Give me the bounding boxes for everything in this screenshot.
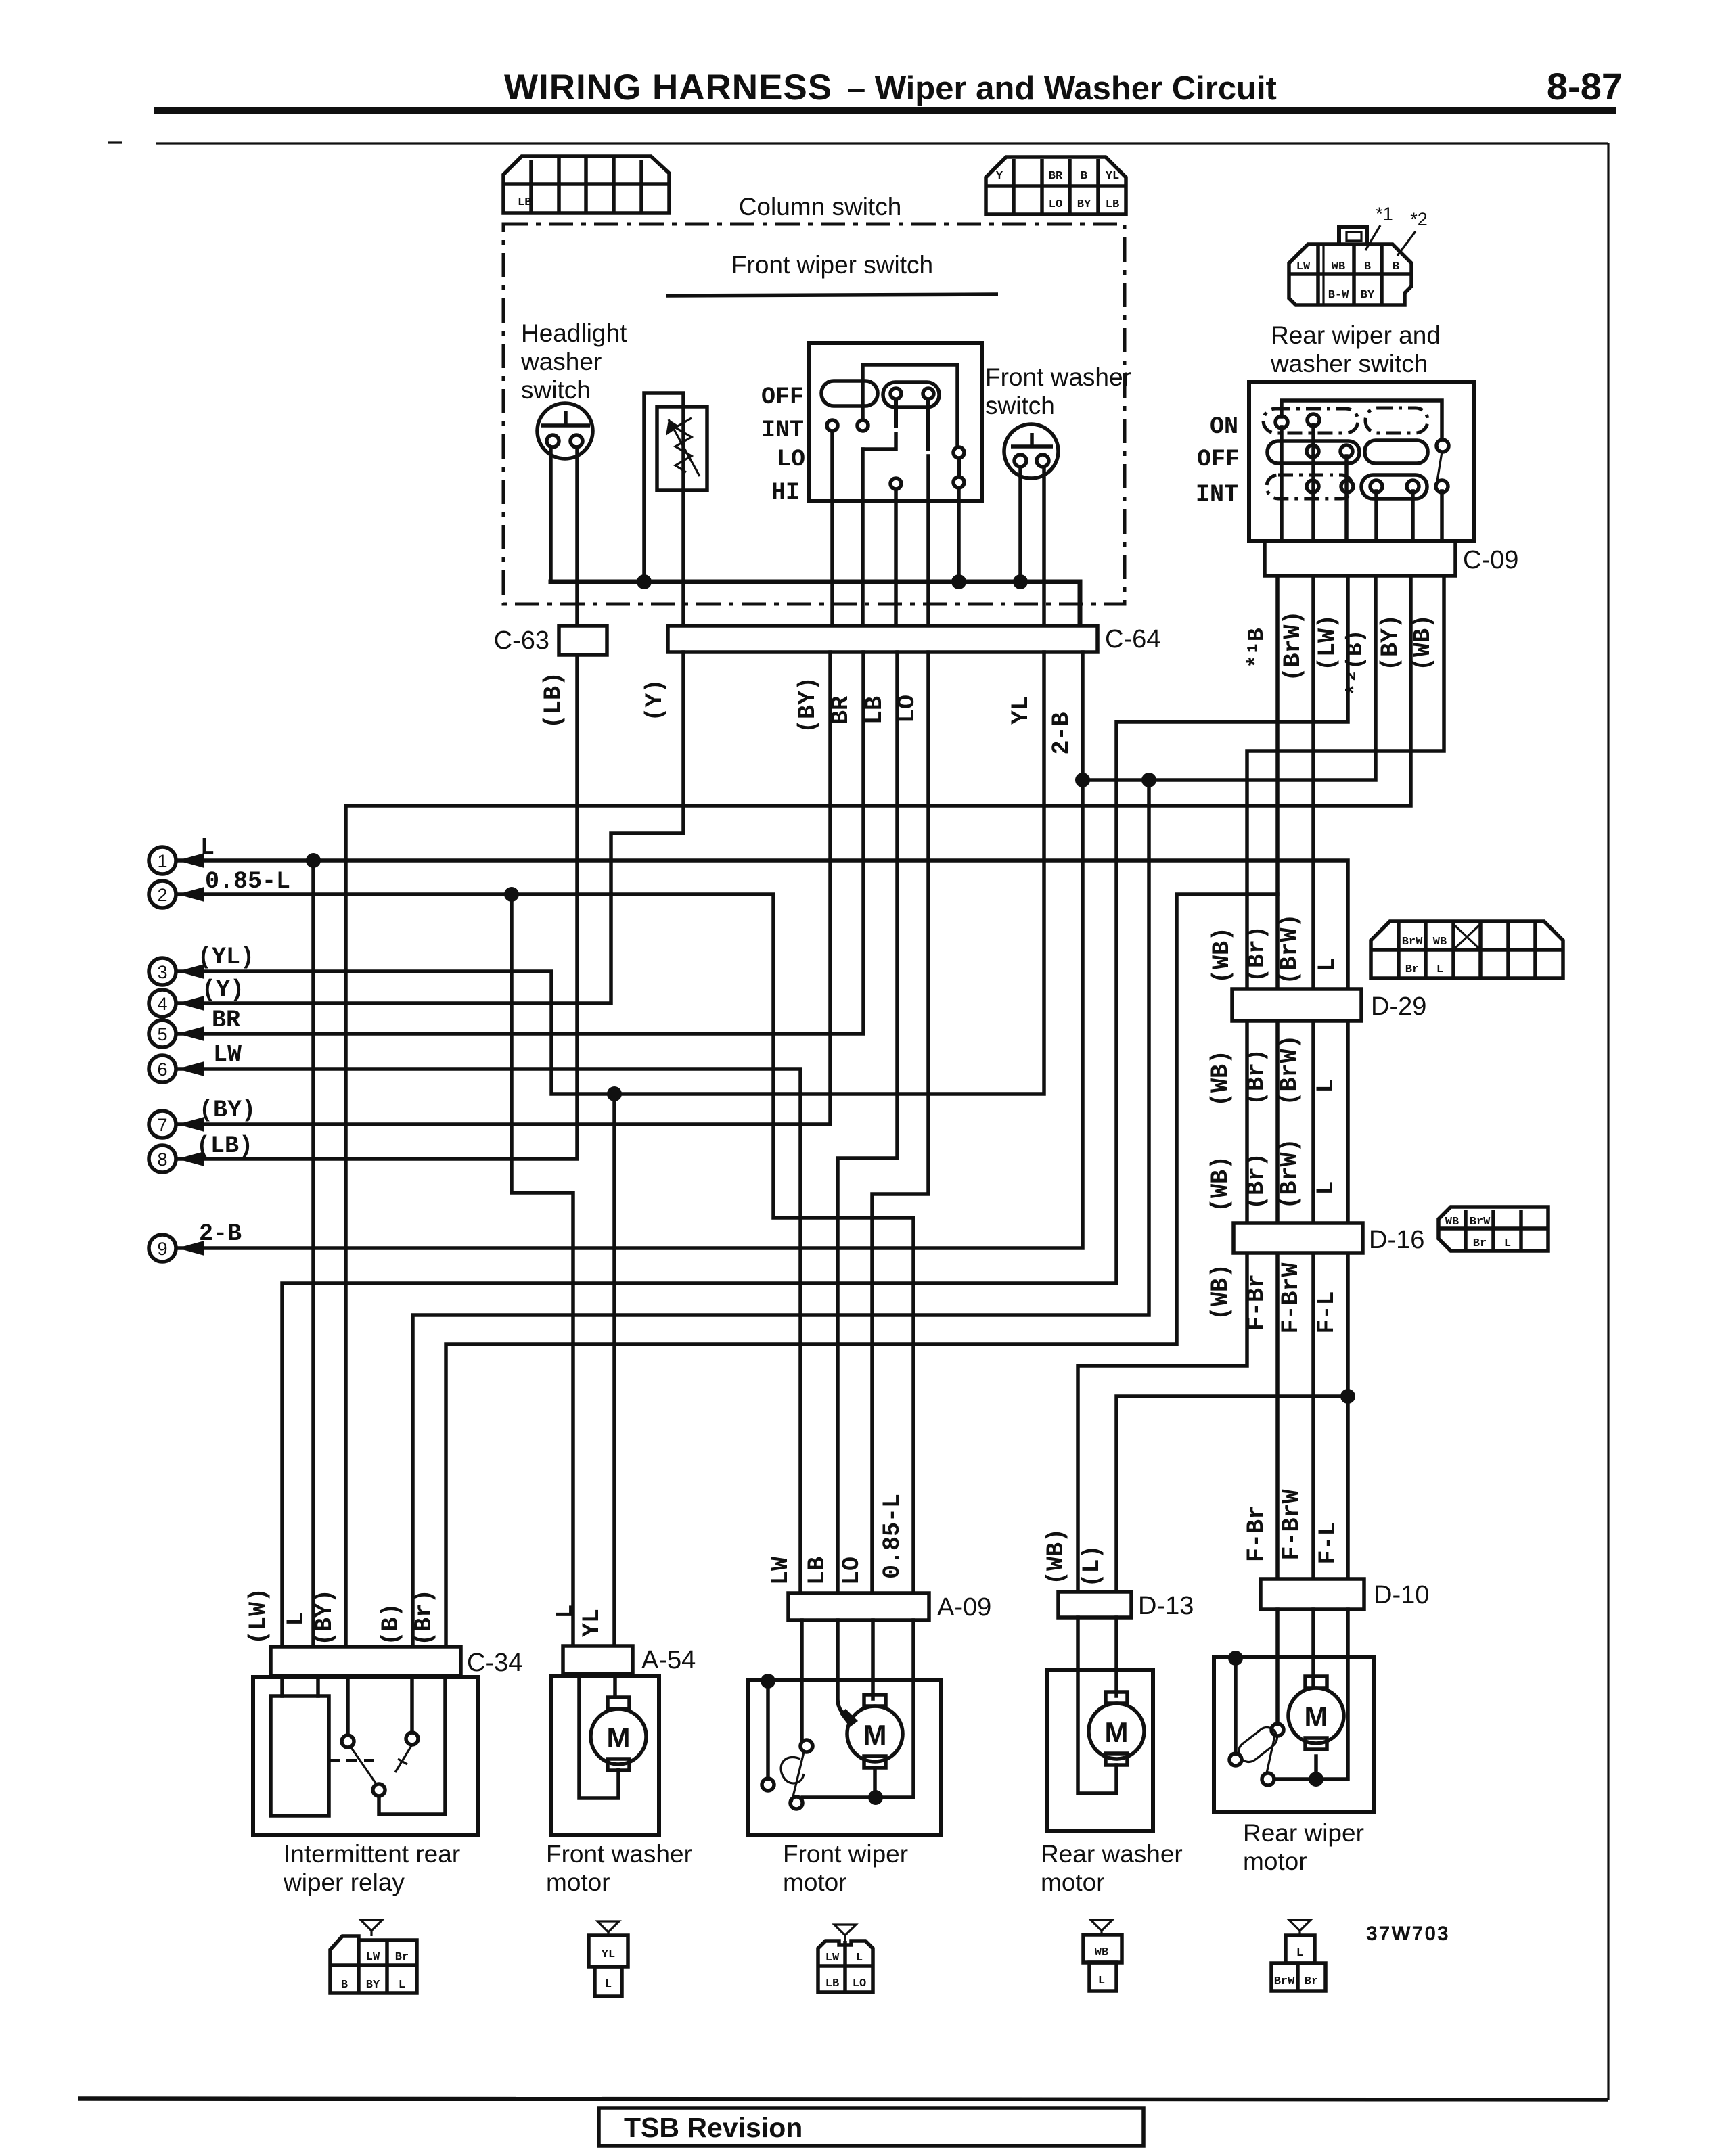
- terminal circle 8: [149, 1145, 176, 1172]
- svg-text:LO: LO: [838, 1557, 865, 1585]
- svg-text:(LB): (LB): [540, 672, 567, 729]
- park switch feed: [766, 1681, 770, 1779]
- wire LO jog to A-09: [872, 652, 928, 1593]
- svg-text:motor: motor: [546, 1868, 610, 1896]
- svg-text:2: 2: [157, 885, 167, 905]
- svg-text:wiper relay: wiper relay: [283, 1868, 405, 1896]
- wire: INT pin to C-64: [830, 431, 834, 626]
- svg-text:C-34: C-34: [467, 1649, 522, 1677]
- terminal circle 5: [149, 1020, 176, 1047]
- arrowhead 3: [177, 964, 204, 979]
- junction YL/A-54 branch: [607, 1086, 622, 1101]
- svg-text:7: 7: [157, 1115, 167, 1135]
- front washer switch: [1004, 424, 1058, 478]
- connector grid D-16 pins (WB BrW / Br L): [1439, 1207, 1548, 1251]
- park blade: [792, 1752, 804, 1802]
- svg-text:F-Br: F-Br: [1243, 1505, 1270, 1562]
- svg-text:M: M: [1105, 1716, 1129, 1748]
- svg-text:0.85-L: 0.85-L: [205, 868, 290, 895]
- svg-text:– Wiper and Washer Circuit: – Wiper and Washer Circuit: [847, 70, 1277, 107]
- wire bridge B to relay branch: [446, 894, 1277, 1647]
- svg-text:switch: switch: [521, 376, 591, 404]
- svg-text:LB: LB: [518, 196, 531, 209]
- column switch boundary (dash-dot box): [503, 224, 1125, 604]
- svg-text:B: B: [341, 1979, 348, 1992]
- svg-text:(WB): (WB): [1207, 1155, 1234, 1212]
- svg-text:F-BrW: F-BrW: [1278, 1489, 1305, 1560]
- svg-text:washer: washer: [520, 348, 602, 375]
- junction: bus/wiper common: [951, 574, 966, 589]
- svg-text:Intermittent rear: Intermittent rear: [284, 1840, 460, 1868]
- svg-text:C-64: C-64: [1105, 625, 1160, 653]
- relay coil: [271, 1696, 329, 1816]
- wire 8 (LB): [177, 655, 577, 1159]
- connector A-09: [788, 1593, 929, 1620]
- svg-text:LB: LB: [825, 1977, 839, 1990]
- arrowhead 6: [177, 1061, 204, 1076]
- svg-text:LO: LO: [894, 695, 921, 723]
- wire (B) branch to C-34: [413, 780, 1149, 1647]
- arrowhead 8: [177, 1151, 204, 1166]
- svg-text:(WB): (WB): [1207, 1050, 1234, 1107]
- wire 1 (L): [177, 861, 1348, 1579]
- svg-text:(BY): (BY): [1377, 614, 1404, 671]
- svg-text:YL: YL: [579, 1609, 606, 1637]
- terminal circle 7: [149, 1111, 176, 1138]
- svg-text:motor: motor: [1243, 1848, 1307, 1875]
- svg-text:D-13: D-13: [1138, 1592, 1194, 1620]
- frame right edge: [1607, 143, 1609, 2100]
- svg-text:(LW): (LW): [1314, 614, 1341, 671]
- connector grid D-29 pins (BrW WB X / Br L): [1371, 921, 1563, 978]
- wire: headlight washer right leg to C-63: [575, 447, 579, 626]
- svg-text:37W703: 37W703: [1366, 1923, 1450, 1945]
- svg-text:(WB): (WB): [1208, 927, 1236, 984]
- wire LB jog to A-09: [838, 652, 897, 1593]
- svg-text:Front wiper: Front wiper: [783, 1840, 908, 1868]
- OFF row pills: [1267, 441, 1359, 463]
- svg-text:L: L: [552, 1604, 579, 1618]
- rear washer motor box: [1047, 1670, 1153, 1831]
- svg-text:(BY): (BY): [311, 1589, 338, 1646]
- relay common return: [379, 1676, 445, 1814]
- svg-text:Br: Br: [1305, 1975, 1318, 1988]
- svg-text:Headlight: Headlight: [521, 319, 627, 347]
- svg-text:BY: BY: [366, 1979, 380, 1992]
- svg-text:(BY): (BY): [794, 676, 821, 733]
- frame top line: [156, 142, 1608, 144]
- second contact pill: [883, 382, 939, 407]
- svg-text:F-BrW: F-BrW: [1277, 1262, 1305, 1333]
- inner feed line: [1282, 400, 1442, 440]
- wire 0.85-L to motor bottom: [802, 1620, 913, 1797]
- inner link OFF common: [863, 365, 957, 447]
- wire F-Br to park contact: [1275, 1609, 1280, 1724]
- svg-text:(YL): (YL): [198, 944, 254, 971]
- svg-text:LW: LW: [366, 1951, 380, 1964]
- park cam pill: [1235, 1723, 1282, 1766]
- svg-text:L: L: [200, 834, 214, 861]
- svg-text:L: L: [1313, 1078, 1340, 1093]
- svg-text:(B): (B): [378, 1603, 405, 1645]
- svg-text:LO: LO: [777, 446, 805, 473]
- terminal circle 2: [149, 881, 176, 908]
- svg-text:LB: LB: [1106, 198, 1119, 211]
- svg-text:INT: INT: [1196, 481, 1238, 508]
- svg-text:BrW: BrW: [1470, 1216, 1491, 1229]
- svg-text:(WB): (WB): [1207, 1264, 1234, 1321]
- svg-text:WIRING HARNESS: WIRING HARNESS: [504, 68, 832, 108]
- svg-text:(BrW): (BrW): [1276, 1138, 1303, 1209]
- svg-text:ON: ON: [1210, 413, 1238, 440]
- wire: washer left leg to bus: [1018, 467, 1022, 582]
- svg-text:M: M: [1305, 1701, 1328, 1733]
- wire: resistor bottom to C-64 (Y): [681, 490, 685, 626]
- relay blade: [350, 1747, 376, 1784]
- svg-text:LW: LW: [1296, 260, 1311, 273]
- connector face A-09 (LW L / LB LO): [818, 1925, 873, 1992]
- svg-text:LB: LB: [804, 1557, 831, 1585]
- header rule: [154, 107, 1616, 114]
- svg-text:motor: motor: [1041, 1868, 1105, 1896]
- switch blade: [1437, 452, 1442, 481]
- svg-text:Br: Br: [1473, 1237, 1487, 1250]
- connector C-63: [559, 626, 607, 655]
- wire 4 (Y): [177, 652, 683, 1003]
- connector C-34: [271, 1647, 461, 1676]
- motor bottom link: [873, 1770, 877, 1797]
- wire YL into motor: [613, 1676, 617, 1697]
- junction B branch: [1141, 773, 1156, 787]
- wire 6 (LW): [177, 1069, 800, 1593]
- connector face D-13 (WB / L): [1083, 1920, 1122, 1991]
- connector D-10: [1261, 1579, 1364, 1609]
- pin wires to C-09: [1280, 427, 1284, 541]
- svg-text:*¹B: *¹B: [1244, 628, 1269, 668]
- wire: LO pin to C-64: [926, 456, 930, 626]
- svg-text:(Br): (Br): [1244, 925, 1271, 982]
- rear wiper and washer switch box: [1249, 382, 1474, 541]
- arrowhead 2: [177, 887, 204, 902]
- wire: YL branch to A-54: [612, 1094, 616, 1647]
- wire: common pin to bus: [957, 488, 961, 582]
- svg-text:D-29: D-29: [1371, 992, 1426, 1021]
- frame bottom rule: [78, 2098, 1608, 2100]
- svg-text:YL: YL: [602, 1948, 615, 1961]
- svg-text:(BrW): (BrW): [1276, 913, 1303, 984]
- svg-text:(Br): (Br): [1243, 1049, 1270, 1105]
- svg-text:M: M: [863, 1719, 887, 1751]
- relay contacts: [342, 1735, 354, 1747]
- connector D-16: [1234, 1223, 1363, 1253]
- wire F-L to motor bottom: [1274, 1609, 1348, 1779]
- park feed: [1234, 1658, 1238, 1754]
- svg-text:Rear washer: Rear washer: [1041, 1840, 1183, 1868]
- svg-text:BrW: BrW: [1274, 1975, 1295, 1988]
- svg-text:2-B: 2-B: [199, 1220, 242, 1247]
- wire *2 (B) from C-09: [1083, 576, 1376, 780]
- svg-text:(Y): (Y): [641, 679, 669, 721]
- svg-text:LW: LW: [213, 1041, 242, 1068]
- terminal circle 9: [149, 1235, 176, 1262]
- svg-text:(L): (L): [1079, 1544, 1106, 1587]
- arrowhead 7: [177, 1117, 204, 1132]
- svg-text:4: 4: [157, 994, 167, 1014]
- svg-text:BR: BR: [212, 1007, 240, 1034]
- svg-text:Rear wiper: Rear wiper: [1243, 1819, 1364, 1847]
- svg-text:5: 5: [157, 1024, 167, 1045]
- svg-text:BrW: BrW: [1402, 936, 1423, 948]
- wire: headlight washer left leg to bus: [549, 447, 553, 582]
- wire LW to park contact: [800, 1620, 804, 1740]
- svg-text:3: 3: [157, 962, 167, 982]
- wire (BrW) chain: [1311, 576, 1315, 1579]
- terminal circle 3: [149, 958, 176, 985]
- connector D-13: [1058, 1592, 1131, 1618]
- wire *1 B chain (C-09 to D-29/D-16/D-10): [1275, 576, 1280, 1579]
- svg-text:8: 8: [157, 1149, 167, 1170]
- headlight washer switch: [537, 403, 593, 459]
- svg-text:C-63: C-63: [494, 626, 549, 655]
- svg-text:LO: LO: [853, 1977, 866, 1990]
- wire F-BrW to motor: [1311, 1609, 1315, 1684]
- svg-text:(WB): (WB): [1409, 614, 1436, 671]
- connector C-09 face (LW WB B B / B-W BY) with latch tab: [1289, 204, 1428, 305]
- svg-text:L: L: [856, 1952, 863, 1965]
- svg-text:*1: *1: [1376, 204, 1393, 224]
- contact circles and pins: [827, 388, 964, 489]
- frame left dashes: [108, 141, 122, 143]
- svg-text:WB: WB: [1332, 260, 1345, 273]
- svg-text:OFF: OFF: [1197, 446, 1240, 473]
- contacts: [1275, 414, 1449, 492]
- front wiper switch bracket: [666, 294, 998, 296]
- arrowhead 4: [177, 996, 204, 1011]
- svg-text:(Y): (Y): [202, 976, 244, 1003]
- front wiper switch box: [809, 343, 982, 501]
- svg-text:L: L: [1504, 1237, 1511, 1250]
- front washer motor box: [551, 1676, 659, 1835]
- wire LO to motor: [871, 1620, 875, 1699]
- wire LB to motor brush: [838, 1620, 853, 1718]
- junction F-L/rear washer: [1340, 1389, 1355, 1404]
- wire: HI pin to C-64: [894, 489, 898, 626]
- svg-text:motor: motor: [783, 1868, 847, 1896]
- svg-text:L: L: [399, 1979, 405, 1992]
- motor M (front wiper): [847, 1695, 903, 1768]
- OFF contact pill: [821, 381, 878, 406]
- svg-text:Br: Br: [395, 1951, 409, 1964]
- wire: resistor top jog to bus: [644, 393, 683, 582]
- svg-text:L: L: [1296, 1947, 1303, 1960]
- svg-text:C-09: C-09: [1463, 546, 1518, 574]
- svg-text:BR: BR: [828, 696, 855, 725]
- svg-text:*2: *2: [1410, 209, 1428, 229]
- svg-text:L: L: [605, 1978, 612, 1991]
- svg-text:L: L: [283, 1611, 310, 1626]
- svg-text:BY: BY: [1077, 198, 1091, 211]
- svg-text:L: L: [1314, 957, 1341, 971]
- svg-text:(LW): (LW): [245, 1588, 272, 1645]
- svg-text:Front wiper switch: Front wiper switch: [731, 251, 933, 279]
- svg-text:0.85-L: 0.85-L: [879, 1494, 906, 1579]
- motor bottom link: [1314, 1756, 1318, 1779]
- arrowhead 1: [177, 853, 204, 868]
- svg-text:(BrW): (BrW): [1280, 610, 1307, 681]
- relay dashed link: [329, 1759, 374, 1762]
- svg-text:6: 6: [157, 1059, 167, 1080]
- svg-text:LO: LO: [1049, 198, 1062, 211]
- wire 7 (BY): [177, 652, 830, 1124]
- svg-text:BR: BR: [1049, 170, 1063, 183]
- connector D-29: [1232, 989, 1361, 1021]
- svg-text:(Br): (Br): [1243, 1153, 1270, 1210]
- svg-text:HI: HI: [771, 479, 800, 506]
- connector C-64: [668, 626, 1097, 652]
- wire: 0.85-L branch to A-54: [512, 894, 573, 1647]
- INT row pills: [1267, 475, 1353, 499]
- svg-text:WB: WB: [1445, 1216, 1459, 1229]
- wire WB into motor: [1078, 1618, 1116, 1793]
- svg-text:YL: YL: [1106, 170, 1119, 183]
- svg-text:LB: LB: [861, 696, 888, 725]
- svg-text:Column switch: Column switch: [739, 193, 902, 221]
- svg-text:(Br): (Br): [411, 1589, 438, 1646]
- bus wire inside column switch: [551, 582, 1080, 626]
- svg-text:L: L: [1313, 1180, 1340, 1195]
- svg-text:8-87: 8-87: [1547, 65, 1623, 108]
- svg-text:Y: Y: [996, 170, 1003, 183]
- svg-text:F-Br: F-Br: [1243, 1274, 1270, 1331]
- svg-text:INT: INT: [761, 417, 804, 444]
- svg-text:L: L: [1098, 1975, 1105, 1988]
- wire (LW) from C-09: [282, 576, 1348, 1647]
- intermittent rear wiper relay box: [253, 1677, 478, 1835]
- svg-text:B: B: [1393, 260, 1399, 273]
- svg-text:M: M: [607, 1722, 631, 1753]
- svg-text:(WB): (WB): [1043, 1528, 1070, 1585]
- wires C-34 into relay: [280, 1676, 284, 1696]
- wire (WB) from C-09: [1078, 576, 1444, 1592]
- junction: bus/resistor: [637, 574, 652, 589]
- svg-text:2-B: 2-B: [1048, 712, 1075, 754]
- arrowhead 5: [177, 1026, 204, 1041]
- svg-text:(BY): (BY): [199, 1097, 256, 1124]
- arrowhead 9: [177, 1241, 204, 1256]
- svg-text:L: L: [1436, 963, 1443, 976]
- wire L jog to D-13: [1116, 1396, 1348, 1592]
- svg-text:washer switch: washer switch: [1270, 350, 1428, 377]
- wire 5 (BR): [177, 652, 863, 1034]
- terminal circle 6: [149, 1055, 176, 1082]
- svg-text:OFF: OFF: [761, 384, 804, 411]
- motor M (front washer): [591, 1697, 646, 1770]
- connector face A-54 (YL / L): [589, 1921, 628, 1996]
- terminal circle 4: [149, 990, 176, 1017]
- motor M (rear washer): [1089, 1692, 1144, 1765]
- svg-text:(LB): (LB): [196, 1132, 253, 1160]
- svg-text:Br: Br: [1405, 963, 1419, 976]
- variable resistor (intermittent control): [657, 407, 707, 490]
- connector grid (column switch upper-left, pin LB): [503, 156, 669, 213]
- junction wire1/L-branch: [306, 853, 321, 868]
- svg-text:B: B: [1081, 170, 1087, 183]
- wire: L branch to C-34: [311, 861, 315, 1647]
- svg-text:F-L: F-L: [1315, 1521, 1342, 1564]
- ON row pills: [1263, 409, 1358, 433]
- svg-text:YL: YL: [1008, 696, 1035, 725]
- connector A-54: [563, 1646, 633, 1674]
- wire 2 (0.85-L): [177, 894, 913, 1593]
- junction: bus/washer leg: [1013, 574, 1028, 589]
- wire 3 (YL): [177, 652, 1044, 1094]
- svg-text:Front washer: Front washer: [546, 1840, 692, 1868]
- svg-text:*²(B): *²(B): [1343, 629, 1368, 696]
- svg-text:Front washer: Front washer: [985, 363, 1131, 391]
- svg-text:D-16: D-16: [1369, 1226, 1424, 1254]
- junction at box corner: [1228, 1651, 1243, 1666]
- junction B/2-B: [1075, 773, 1090, 787]
- svg-text:A-54: A-54: [641, 1646, 696, 1674]
- rear wiper motor box: [1214, 1657, 1374, 1812]
- svg-text:switch: switch: [985, 392, 1055, 419]
- svg-text:WB: WB: [1095, 1946, 1108, 1959]
- connector C-09: [1265, 541, 1455, 576]
- connector face C-34 (LW Br / B BY L): [330, 1920, 417, 1993]
- svg-text:TSB Revision: TSB Revision: [624, 2112, 802, 2143]
- junction at box corner: [761, 1674, 775, 1689]
- wire 9 (2-B): [177, 652, 1083, 1248]
- motor M (rear wiper): [1288, 1676, 1344, 1749]
- svg-text:D-10: D-10: [1374, 1581, 1429, 1609]
- terminal circle 1: [149, 847, 176, 874]
- svg-text:9: 9: [157, 1239, 167, 1259]
- connector grid (column switch upper-right: Y BR B YL / LO BY LB): [986, 157, 1126, 214]
- svg-text:B-W: B-W: [1328, 289, 1349, 302]
- svg-text:WB: WB: [1433, 936, 1447, 948]
- park blade: [1267, 1736, 1275, 1773]
- wire: washer right leg to C-64 (YL): [1042, 467, 1046, 626]
- svg-text:BY: BY: [1361, 289, 1375, 302]
- wire L into motor: [1114, 1618, 1118, 1696]
- svg-text:LW: LW: [825, 1952, 840, 1965]
- svg-text:B: B: [1364, 260, 1371, 273]
- svg-text:Rear wiper and: Rear wiper and: [1271, 321, 1441, 349]
- inner jog to LO pin: [863, 434, 896, 449]
- junction wire2/A-54 branch: [504, 887, 519, 902]
- wire (BY) from C-09 to C-34: [346, 576, 1411, 1647]
- TSB Revision box: [599, 2108, 1144, 2146]
- connector face D-10 (L / BrW Br): [1271, 1920, 1326, 1991]
- svg-text:LW: LW: [767, 1557, 794, 1585]
- svg-text:1: 1: [157, 851, 167, 871]
- wire L into motor: [579, 1676, 618, 1798]
- front wiper motor box: [748, 1680, 941, 1835]
- wire: BR pin to C-64: [861, 449, 865, 626]
- svg-text:F-L: F-L: [1313, 1291, 1340, 1333]
- svg-text:A-09: A-09: [937, 1593, 991, 1622]
- svg-text:(BrW): (BrW): [1276, 1034, 1303, 1105]
